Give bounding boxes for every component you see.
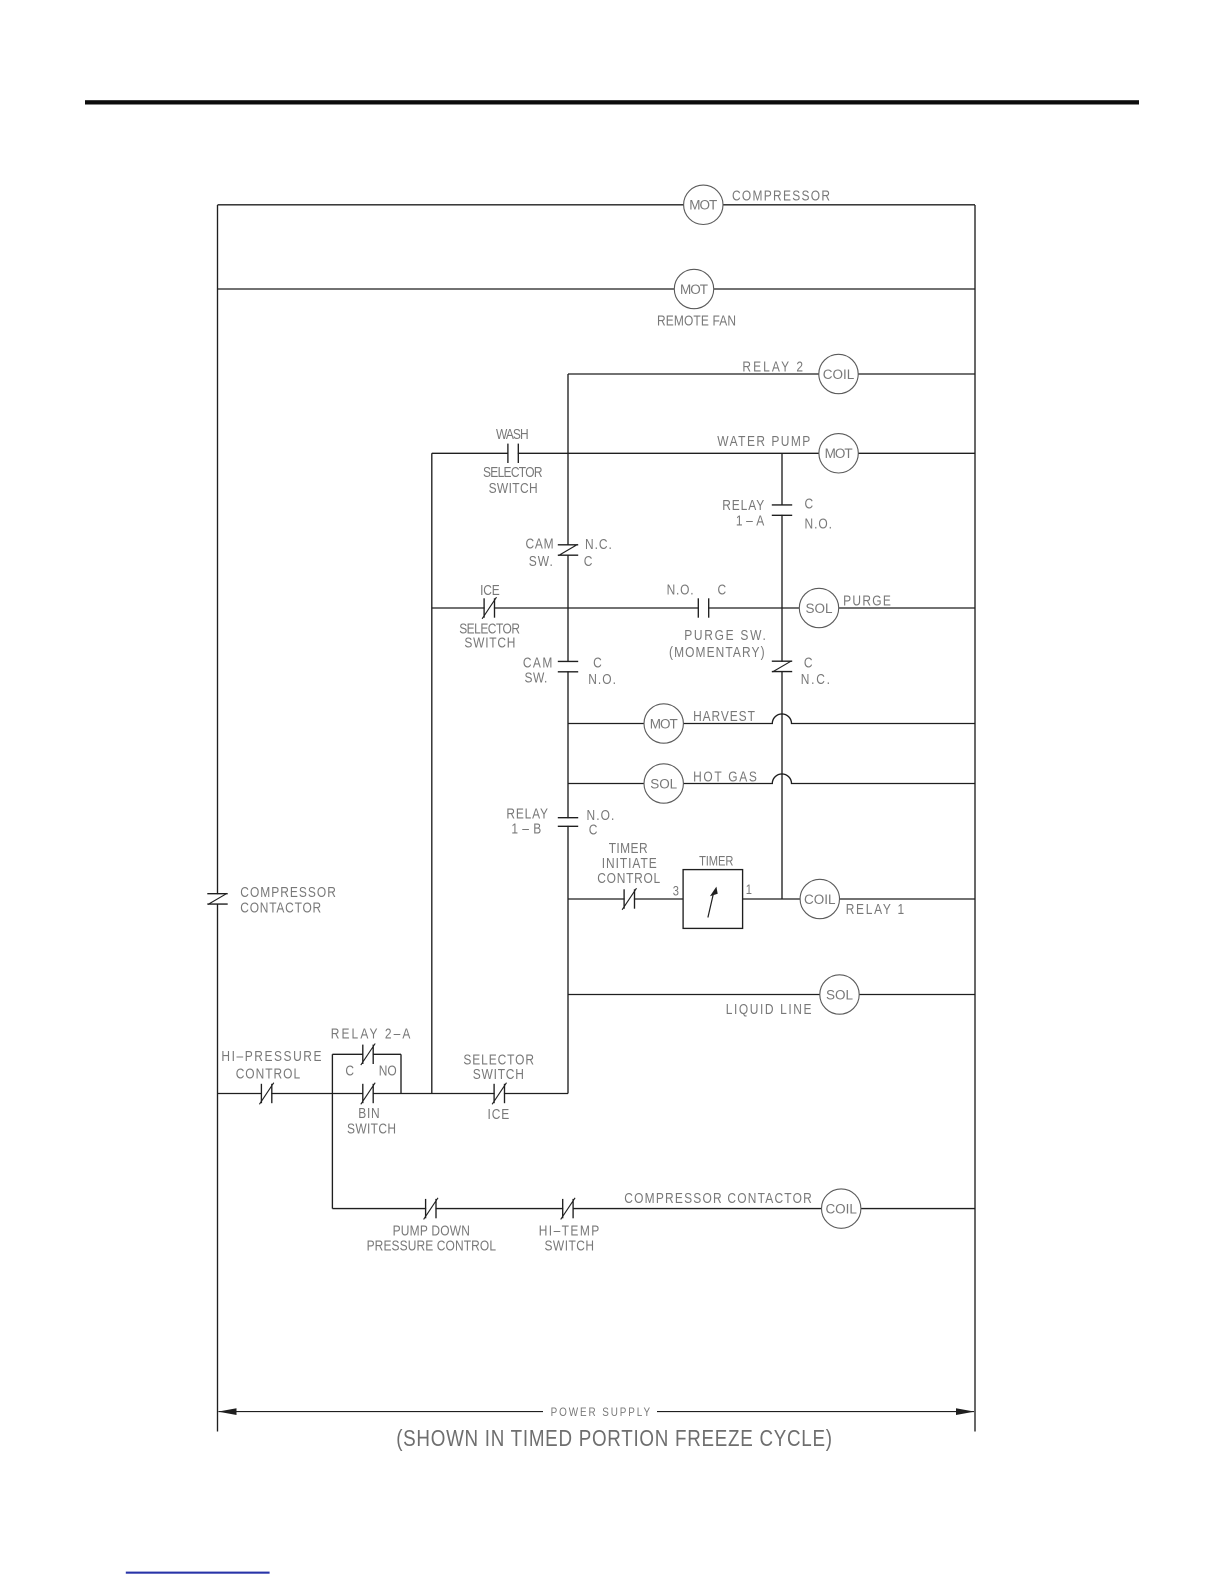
svg-text:MOT: MOT xyxy=(680,282,708,297)
svg-text:WATER PUMP: WATER PUMP xyxy=(717,433,810,449)
svg-text:SOL: SOL xyxy=(806,601,833,616)
svg-text:CONTACTOR: CONTACTOR xyxy=(240,899,321,915)
svg-text:NO: NO xyxy=(379,1062,397,1078)
svg-text:C: C xyxy=(589,822,598,838)
svg-text:1–A: 1–A xyxy=(736,512,764,528)
svg-text:1: 1 xyxy=(746,882,752,897)
svg-text:LIQUID LINE: LIQUID LINE xyxy=(726,1001,812,1017)
svg-text:PUMP DOWN: PUMP DOWN xyxy=(393,1222,470,1238)
svg-text:C: C xyxy=(804,655,813,671)
svg-text:(SHOWN IN TIMED PORTION FR: (SHOWN IN TIMED PORTION FREEZE CYCLE) xyxy=(396,1425,832,1452)
svg-text:COIL: COIL xyxy=(823,367,855,382)
svg-text:SWITCH: SWITCH xyxy=(464,635,515,651)
svg-text:C: C xyxy=(593,655,602,671)
svg-text:SOL: SOL xyxy=(826,987,853,1002)
svg-text:COMPRESSOR: COMPRESSOR xyxy=(240,884,336,900)
svg-text:3: 3 xyxy=(673,883,679,898)
svg-text:CONTROL: CONTROL xyxy=(597,870,660,886)
svg-text:ICE: ICE xyxy=(480,582,500,598)
svg-text:TIMER: TIMER xyxy=(699,854,733,869)
svg-text:WASH: WASH xyxy=(496,426,529,442)
svg-text:SW.: SW. xyxy=(529,553,553,569)
svg-text:SW.: SW. xyxy=(525,669,548,685)
svg-text:(MOMENTARY): (MOMENTARY) xyxy=(669,644,765,660)
svg-text:COMPRESSOR CONTACTOR: COMPRESSOR CONTACTOR xyxy=(624,1190,812,1206)
svg-text:MOT: MOT xyxy=(689,198,717,213)
svg-text:C: C xyxy=(805,496,814,512)
svg-text:PRESSURE CONTROL: PRESSURE CONTROL xyxy=(367,1237,496,1253)
svg-text:PURGE SW.: PURGE SW. xyxy=(684,627,766,643)
svg-text:MOT: MOT xyxy=(825,446,853,461)
svg-text:COIL: COIL xyxy=(825,1202,857,1217)
svg-text:SWITCH: SWITCH xyxy=(347,1120,396,1136)
svg-text:PURGE: PURGE xyxy=(843,592,891,608)
svg-text:COMPRESSOR: COMPRESSOR xyxy=(732,187,830,203)
svg-text:CAM: CAM xyxy=(526,535,554,551)
svg-text:C: C xyxy=(718,582,727,598)
svg-text:SOL: SOL xyxy=(650,776,677,791)
svg-text:SELECTOR: SELECTOR xyxy=(483,464,543,480)
svg-text:N.O.: N.O. xyxy=(805,515,833,531)
svg-text:C: C xyxy=(584,553,593,569)
svg-text:N.C.: N.C. xyxy=(585,536,612,552)
svg-text:N.O.: N.O. xyxy=(667,582,694,598)
svg-text:REMOTE FAN: REMOTE FAN xyxy=(657,312,736,328)
svg-text:RELAY: RELAY xyxy=(722,497,764,513)
svg-text:SWITCH: SWITCH xyxy=(489,480,538,496)
svg-text:MOT: MOT xyxy=(650,716,678,731)
svg-text:C: C xyxy=(345,1062,354,1078)
svg-text:RELAY 2–A: RELAY 2–A xyxy=(331,1025,411,1041)
svg-text:BIN: BIN xyxy=(358,1105,379,1121)
svg-text:COIL: COIL xyxy=(804,892,836,907)
svg-text:SWITCH: SWITCH xyxy=(545,1237,595,1253)
svg-text:CONTROL: CONTROL xyxy=(236,1065,300,1081)
svg-text:HI–PRESSURE: HI–PRESSURE xyxy=(221,1048,321,1064)
svg-text:ICE: ICE xyxy=(488,1106,510,1122)
svg-text:SWITCH: SWITCH xyxy=(473,1066,524,1082)
svg-text:HARVEST: HARVEST xyxy=(693,708,755,724)
svg-text:1–B: 1–B xyxy=(511,820,541,836)
